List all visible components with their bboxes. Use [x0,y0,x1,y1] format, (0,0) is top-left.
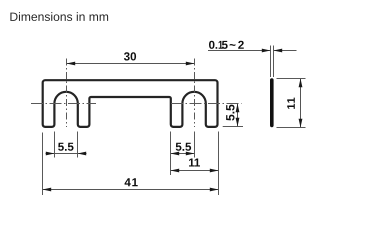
arrowhead up of dim 11 side [299,79,303,88]
value label 0.15~2 [209,41,244,49]
extension line left of dim 11 (fork inner edge) [170,132,172,176]
dimension line 11 [171,170,219,172]
extension line strip left face [270,46,272,78]
extension line at prong bottom edge [223,126,243,128]
arrowhead pointing right at strip left face [262,49,271,53]
left slot vertical centerline [66,59,68,128]
dimension 11: side view height [277,79,306,128]
dimension line 30 [67,63,195,65]
extension line strip right face [273,46,275,78]
dimension 5.5: right fork inner edge to slot centerline [171,132,195,158]
value label 30 [124,52,136,60]
title text: Dimensions in mm [10,12,108,21]
arrowhead up of dim 5.5 vertical [236,104,240,113]
arrowhead pointing left at left slot right side [78,152,87,156]
arrowhead down of dim 11 side [299,119,303,128]
value label 41 [125,178,138,186]
arrowhead left of dim 30 [67,62,76,66]
arrowhead right of dim 41 [210,188,219,192]
dimension line 5.5 left [46,153,87,155]
dimension 0.15~2: strip thickness (outside arrows) [208,41,297,77]
arrowhead down of dim 5.5 vertical [236,118,240,127]
arrowhead left of dim 41 [43,188,52,192]
dimension line 41 [43,189,219,191]
value label 11 [189,159,200,167]
right slot horizontal centerline (doubles as top extension line of vertical 5.5 dimension) [171,103,242,105]
dimension line 5.5 right [171,153,195,155]
extension line right of dim 41 and dim 11 [218,132,220,196]
dimension 30: slot center to slot center [67,52,195,65]
side view strip (part thickness profile, filled) [270,80,274,125]
dimension 5.5 vertical: slot centerline to bottom edge [223,104,243,127]
arrowhead left of dim 11 [171,169,180,173]
extension line left of dim 41 [42,133,44,196]
dimension 11: right fork overall width [171,132,219,176]
extension line left slot right side [77,132,79,158]
value label 11 rotated [287,98,295,109]
left slot horizontal centerline [31,103,96,105]
leader/dimension line left of 0.15~2 [208,50,271,52]
value label 5.5 right [176,143,191,151]
arrowhead pointing left at strip right face [274,49,283,53]
arrowhead right of dim 11 [210,169,219,173]
fuse strip front view outline (two slotted forks joined by top bar) [43,80,218,127]
arrowhead left of dim 5.5 right [171,152,180,156]
value label 5.5 left [58,143,73,151]
extension line below right slot centerline [194,132,196,158]
dimension line right of 0.15~2 [274,50,297,52]
extension line left slot left side [54,132,56,158]
arrowhead right of dim 30 [186,62,195,66]
dimension line 11 side [300,79,302,128]
extension line strip bottom [277,127,306,129]
value label 5.5 rotated [226,105,234,121]
arrowhead pointing right at left slot left side [46,152,55,156]
dimension 5.5: left slot width (outside arrows) [46,132,87,158]
extension line strip top [277,78,306,80]
right slot vertical centerline [194,59,196,128]
dimension line 5.5 vertical [237,104,239,127]
dimension 41: overall width [43,132,219,196]
arrowhead right of dim 5.5 right [186,152,195,156]
